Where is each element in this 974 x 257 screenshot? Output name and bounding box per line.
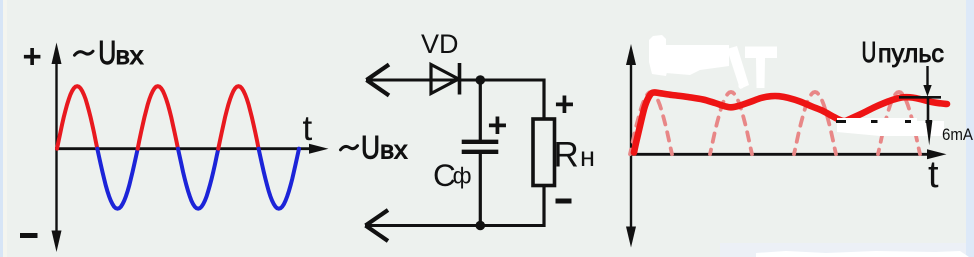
vertical axis (output) [630,52,632,240]
minus label at resistor [556,199,572,204]
sine half-cycle 2 (negative blue) [97,149,137,209]
svg-text:t: t [303,109,313,148]
dashed rectified half-wave hump 4 [878,92,920,154]
wire: right branch below resistor [542,186,545,228]
sine half-cycle 6 (negative blue) [259,149,299,209]
white erase smudge gamma bar [745,47,777,89]
wire: top rail [366,79,546,82]
ripple bottom dashed reference line [836,120,932,123]
capacitor C top plate [462,140,499,144]
svg-text:пульс: пульс [878,40,944,68]
svg-text:U: U [361,130,380,166]
sine half-cycle 5 (positive red) [218,86,258,149]
horizontal axis t (left diagram) [55,147,318,150]
svg-text:вх: вх [380,137,408,165]
diode VD triangle (anode) [431,65,459,94]
capacitor C bottom plate [462,150,499,154]
svg-text:вх: вх [116,42,145,70]
svg-text:t: t [928,154,939,196]
open arrowhead left top [367,65,390,96]
ripple top reference line [899,96,941,99]
white erase smudge bottom right [756,251,969,257]
sine half-cycle 4 (negative blue) [178,149,218,209]
wire: right branch down from top rail [542,79,545,120]
svg-text:ф: ф [453,163,472,189]
node junction bottom (dot) [476,221,486,231]
label ~Uvx (circuit input) [341,146,358,150]
ripple dimension: down arrow from label [926,66,928,88]
vertical axis top arrowhead [52,43,62,65]
node junction top (dot) [476,75,486,85]
down tapering arrowhead to axis [926,121,933,146]
white erase smudge dot [738,83,743,88]
vertical axis (input voltage) [55,52,57,243]
svg-text:+: + [23,38,42,75]
dashed rectified half-wave hump 1 [630,92,672,154]
horizontal axis arrowhead [309,144,329,154]
svg-text:U: U [862,37,877,69]
horizontal axis t (right diagram) [629,153,935,156]
resistor Rn body [533,119,555,186]
vertical axis top arrowhead [626,44,636,65]
wire: bottom rail [365,224,546,227]
smoothed output curve (thick red) [634,92,947,152]
left edge light blue strip [0,0,3,257]
vertical axis bottom arrowhead [52,231,62,253]
vertical axis bottom arrowhead [626,227,636,248]
sine half-cycle 1 (positive red) [57,86,97,149]
svg-text:н: н [580,141,595,172]
horizontal axis arrowhead [927,149,947,159]
svg-text:+: + [488,107,508,145]
dashed rectified half-wave hump 3 [794,92,836,154]
svg-text:+: + [555,86,575,124]
white erase smudge block A [649,35,681,76]
white erase smudge block B [666,45,729,75]
svg-text:6mA: 6mA [942,125,974,144]
wire: capacitor branch lower [479,154,482,226]
shaft below reference line [927,97,930,122]
minus label (bottom left) [20,233,38,238]
white erase smudge diagonal streak [727,46,749,89]
svg-text:R: R [554,135,579,174]
wire: capacitor branch upper [479,80,482,140]
open arrowhead left bottom [366,210,389,241]
svg-text:VD: VD [421,29,459,59]
svg-text:U: U [98,34,116,71]
bottom-right pale blue area [720,243,966,257]
diode VD cathode bar [458,63,462,95]
right edge light blue strip [966,0,974,257]
white erase smudge near dashed measure line [837,118,940,136]
dashed rectified half-wave hump 2 [710,92,752,154]
sine half-cycle 3 (positive red) [138,86,178,149]
label ~Uvx (top left) [75,51,94,55]
